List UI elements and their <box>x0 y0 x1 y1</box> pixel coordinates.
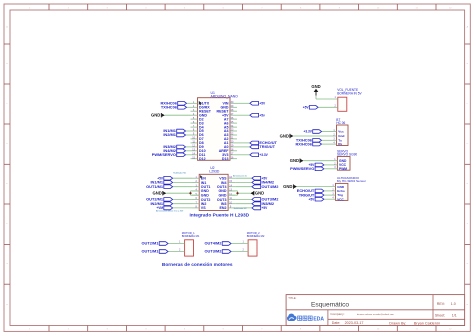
module SERVO SG90 body <box>337 157 350 172</box>
svg-text:Vcc: Vcc <box>338 130 344 134</box>
svg-text:OUT3/M2: OUT3/M2 <box>205 249 223 254</box>
U1 pin stubs left (pins 1-15) <box>191 101 198 159</box>
svg-text:BORNERA M2: BORNERA M2 <box>247 234 265 238</box>
MOTOR_1 labels <box>182 231 200 238</box>
svg-text:Date:: Date: <box>332 321 341 325</box>
svg-text:My HC-SR04 Sensor: My HC-SR04 Sensor <box>337 179 366 183</box>
net flag OUT1/M1 to MOTOR_1 pin 2 <box>142 249 185 254</box>
annotation Habilitador M2 <box>234 207 248 210</box>
svg-text:IN2/M1: IN2/M1 <box>163 132 176 137</box>
net flag RX/HC06 to U1 D1/TX <box>160 101 190 106</box>
microcontroller U1 ARDUINO_NANO body <box>198 98 231 161</box>
title block texts <box>288 296 457 325</box>
ground GND to U1 GND pin <box>151 113 191 118</box>
U1 right pin names <box>217 102 230 161</box>
U1 left pin names <box>199 102 212 161</box>
svg-text:+5V: +5V <box>262 206 269 210</box>
net flag IN1/M1 to U2 IN1 <box>150 180 192 185</box>
connector P1 VOL_FUENTE body <box>338 97 347 111</box>
net flag +5V at U2 VSS <box>235 176 268 180</box>
net flag +3.3V at U1 3V3 <box>237 153 269 157</box>
connector MOTOR_2 BORNERA M2 body <box>248 240 257 256</box>
annotation Alimentacion 5v <box>233 175 247 178</box>
svg-text:Esquemático: Esquemático <box>311 301 349 308</box>
title block <box>286 295 465 326</box>
ground GND to BT Gnd <box>280 133 337 138</box>
svg-text:OUT1/M1: OUT1/M1 <box>146 184 164 189</box>
net flag +5V to U2 EN <box>157 176 192 180</box>
svg-text:Habilitador M1: Habilitador M1 <box>173 172 187 175</box>
cursor arrow on U2 <box>200 175 203 178</box>
ground GND to ULTRASONIDO GND <box>283 184 335 189</box>
svg-text:ARDUINO_NANO: ARDUINO_NANO <box>211 94 239 98</box>
svg-text:GND: GND <box>152 191 161 196</box>
svg-text:OUT2/M1: OUT2/M1 <box>142 241 160 246</box>
net flag +5v at U1 +5V pin <box>237 113 265 117</box>
svg-text:PWM/SERVO: PWM/SERVO <box>152 152 176 157</box>
net flag +3.3V to BT Vcc <box>303 129 336 134</box>
svg-text:+5V: +5V <box>259 102 266 106</box>
svg-text:+3.3V: +3.3V <box>303 130 312 134</box>
U2 value label L293D <box>209 170 220 174</box>
P1 labels VOL_FUENTE BORNERA IN 5V <box>337 88 362 95</box>
net flag OUT4/M2 to MOTOR_2 pin 1 <box>205 241 249 246</box>
net flag OUT2/M1 to MOTOR_1 pin 1 <box>142 241 185 246</box>
svg-text:+5V: +5V <box>309 197 316 201</box>
svg-text:OUT4/M2: OUT4/M2 <box>205 241 223 246</box>
net flag IN4/M2 at U2 IN4 <box>235 180 275 185</box>
ground GND left of U2 <box>152 191 166 196</box>
svg-text:Rx: Rx <box>338 142 342 146</box>
svg-text:Sheet:: Sheet: <box>435 313 445 317</box>
svg-text:VS: VS <box>201 206 206 210</box>
net flag IN1/M1 to U1 D5 <box>163 128 190 133</box>
svg-text:+5v: +5v <box>259 113 265 117</box>
svg-text:Alimentación 5v: Alimentación 5v <box>233 175 247 178</box>
svg-text:+VM: +VM <box>156 206 163 210</box>
svg-text:G: G <box>6 263 8 265</box>
svg-text:2023-03-17: 2023-03-17 <box>345 321 364 325</box>
annotation Alimentacion Motor <box>156 210 184 213</box>
net flag TRIG/UT at U1 A0 <box>237 144 276 149</box>
svg-text:+3.3V: +3.3V <box>259 153 268 157</box>
net flag +5V to ULTRASONIDO VCC <box>309 197 336 202</box>
net flag IN4/M2 to U1 D10 <box>163 148 190 153</box>
net flag OUT1/M1 to U2 OUT1 <box>146 184 192 189</box>
annotation Habilitador M1 <box>173 172 187 175</box>
svg-text:PWM: PWM <box>339 167 347 171</box>
svg-text:TX/HC06: TX/HC06 <box>161 105 178 110</box>
svg-text:D13: D13 <box>222 157 229 161</box>
BT labels <box>336 118 345 125</box>
svg-text:Borneras de conexión motores: Borneras de conexión motores <box>162 262 233 268</box>
svg-text:VCC: VCC <box>337 197 344 201</box>
U1 pin stubs right (pins 30-16) <box>230 101 237 159</box>
net flag RX/HC06 to BT Rx <box>295 141 336 146</box>
svg-text:GND: GND <box>290 158 299 163</box>
svg-text:BORNERA IN 5V: BORNERA IN 5V <box>337 91 362 95</box>
svg-text:SERVO SG90: SERVO SG90 <box>337 153 357 157</box>
U2 pin stubs left (pins 1-8) <box>192 176 199 209</box>
svg-text:GND: GND <box>283 184 292 189</box>
module ULTRASONIDO HC-SR04 body <box>336 183 348 201</box>
ground GND to SERVO GND <box>290 158 338 163</box>
net flag +VM to U2 VS <box>156 206 192 210</box>
svg-text:EDA: EDA <box>313 317 324 323</box>
EasyEDA logo <box>287 314 324 323</box>
wire GND to P1 pin 1 <box>316 96 338 100</box>
net flag IN2/M1 to U2 IN2 <box>150 201 192 206</box>
cursor arrow on U1 <box>199 101 202 105</box>
svg-text:GND: GND <box>151 113 160 118</box>
svg-text:Drawn By:: Drawn By: <box>389 321 406 325</box>
svg-text:1/1: 1/1 <box>452 313 457 317</box>
U2 left pin names <box>201 177 211 211</box>
net flag OUT3/M2 to MOTOR_2 pin 2 <box>205 249 249 254</box>
net flag IN3/M2 at U2 IN3 <box>235 201 275 206</box>
wire U2 GND pins to ground (left) <box>166 191 199 195</box>
svg-text:EN2: EN2 <box>220 206 227 210</box>
svg-text:TITLE:: TITLE: <box>288 296 296 300</box>
section label Borneras de conexion motores <box>162 262 233 268</box>
ULTRASONIDO labels <box>337 176 366 183</box>
net flag PWM/SERVO to U1 D11 <box>152 152 191 157</box>
H-bridge U2 L293D body <box>199 174 228 210</box>
net flag ECHO/UT to ULTRASONIDO Echo <box>297 188 336 193</box>
net flag +5V to SERVO VCC <box>309 162 338 167</box>
net flag OUT4/M2 at U2 OUT4 <box>235 184 279 189</box>
svg-text:D12: D12 <box>199 157 206 161</box>
junction left of U2 <box>189 192 191 194</box>
U1 value label ARDUINO_NANO <box>211 94 239 98</box>
net flag TRIG/UT to ULTRASONIDO Trig <box>299 192 336 197</box>
svg-text:Company:: Company: <box>330 312 344 316</box>
net flag TX/HC06 to U1 D0/RX <box>161 105 191 110</box>
net flag +5V to P1 pin 2 <box>303 105 338 110</box>
svg-text:L293D: L293D <box>209 170 220 174</box>
net flag +5V at U2 EN2 <box>235 206 268 210</box>
svg-text:dsuman calumar ecuador@outlo: dsuman calumar ecuador@outlook com <box>357 313 394 316</box>
module BT HC 06 body <box>337 125 349 146</box>
net flag IN3/M2 to U1 D9 <box>163 144 190 149</box>
connector MOTOR_1 BORNERA M1 body <box>185 240 194 256</box>
svg-text:BORNERA M1: BORNERA M1 <box>182 234 200 238</box>
net flag OUT2/M1 to U2 OUT2 <box>146 197 192 202</box>
svg-text:G: G <box>467 263 469 265</box>
net flag +5V at U1 VIN <box>237 102 266 106</box>
ground GND right of U2 <box>250 191 264 196</box>
svg-text:Habilitador M2: Habilitador M2 <box>234 207 248 210</box>
svg-text:PWM/SERVO: PWM/SERVO <box>290 166 314 171</box>
svg-text:Bryan Calderón: Bryan Calderón <box>414 321 440 325</box>
svg-text:HC 06: HC 06 <box>336 121 345 125</box>
net flag IN2/M1 to U1 D6 <box>163 132 190 137</box>
ground GND above P1 <box>311 84 320 96</box>
svg-text:Integrado Puente H L293D: Integrado Puente H L293D <box>189 213 249 219</box>
svg-text:1.0: 1.0 <box>451 302 456 306</box>
MOTOR_2 labels <box>247 231 265 238</box>
net flag TX/HC06 to BT Tx <box>296 138 337 143</box>
U2 right pin names <box>217 177 227 211</box>
net flag OUT3/M2 at U2 OUT3 <box>235 197 279 202</box>
svg-text:GND: GND <box>255 191 264 196</box>
svg-text:GND: GND <box>311 84 320 89</box>
svg-text:+5V: +5V <box>303 106 310 110</box>
svg-text:OUT4/M2: OUT4/M2 <box>262 184 280 189</box>
svg-text:TRIG/UT: TRIG/UT <box>259 144 275 149</box>
svg-text:Alimentación Motor 3.5v a 36V: Alimentación Motor 3.5v a 36V <box>156 210 184 213</box>
U1 reference designator label <box>211 91 215 95</box>
junction right of U2 <box>236 192 238 194</box>
net flag PWM/SERVO to SERVO PWM <box>290 166 337 171</box>
U2 reference designator label <box>210 166 214 170</box>
wire U2 GND pins to ground (right) <box>228 191 250 195</box>
svg-text:RX/HC06: RX/HC06 <box>295 141 312 146</box>
section label Integrado Puente H L293D <box>189 213 249 219</box>
svg-text:GND: GND <box>280 133 289 138</box>
SERVO labels <box>337 150 357 157</box>
svg-text:OUT1/M1: OUT1/M1 <box>142 249 160 254</box>
svg-text:REV:: REV: <box>437 302 445 306</box>
U2 pin stubs right (pins 16-9) <box>228 176 235 209</box>
net flag ECHO/UT at U1 A1 <box>237 140 278 145</box>
